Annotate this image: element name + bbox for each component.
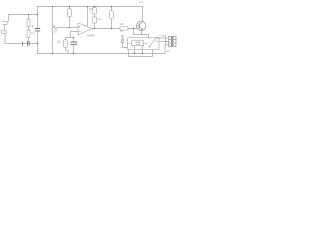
wire op-amp power pin from rail xyxy=(87,7,89,27)
resistor R3 xyxy=(93,8,97,14)
relay switch contact dot NC xyxy=(156,41,157,42)
diode D1 cathode dot xyxy=(122,35,124,37)
wire transistor collector from rail xyxy=(142,7,144,22)
junction dot ground-left at C1 branch xyxy=(37,43,39,45)
junction dot output at base node xyxy=(133,28,134,29)
wire resistor chain R1 top lead xyxy=(28,15,30,20)
relay switch arm xyxy=(150,39,156,47)
wire mic middle lead xyxy=(4,25,6,31)
wire inverting input down to filter node xyxy=(70,32,72,38)
wire bottom-left ground segment xyxy=(5,43,38,45)
wire mic bottom lead xyxy=(4,34,6,44)
wire capacitor C4 top lead xyxy=(73,38,75,43)
transistor Q1 base bar xyxy=(138,23,140,28)
capacitor C5 electrolytic can xyxy=(109,11,113,19)
transistor Q1 emitter stroke with arrow xyxy=(139,27,142,30)
wire ground rail up to terminal 3 xyxy=(165,45,169,54)
wire node at base resistor down xyxy=(133,29,135,35)
relay coil inner ellipse xyxy=(136,42,140,44)
terminal block dividers xyxy=(169,40,177,43)
junction dot rail at R3 xyxy=(94,6,95,7)
junction dot ground rail at coil pin 2 xyxy=(142,53,143,54)
wire mic top lead xyxy=(8,15,10,22)
wire emitter node horizontal xyxy=(134,34,149,36)
svg-text:R5: R5 xyxy=(120,29,124,33)
wire terminal link vertical xyxy=(165,36,167,45)
relay switch contact dot NO xyxy=(155,38,156,39)
relay coil lead left xyxy=(128,42,132,44)
capacitor C2 electrolytic can xyxy=(67,9,71,17)
op-amp plus input mark xyxy=(79,26,81,28)
resistor R5 base resistor xyxy=(120,27,128,30)
terminal block J1 outline xyxy=(169,37,177,47)
wire between R1 and R2 xyxy=(28,27,30,31)
wire divider chain top lead from rail xyxy=(94,7,96,8)
junction dot rail at C5 xyxy=(111,6,112,7)
wire relay bottom loop xyxy=(129,50,153,57)
op-amp minus input mark xyxy=(79,30,81,32)
wire wiper node to op-amp non-inverting input xyxy=(56,27,78,29)
wire upper stub to terminal link xyxy=(161,35,166,37)
wire diode D1 top lead xyxy=(122,37,124,39)
wire transistor emitter lead xyxy=(141,31,143,35)
terminal screw circles xyxy=(171,37,173,39)
junction dot ground rail at C4 xyxy=(73,53,74,54)
wire below R4 to output node xyxy=(94,23,96,29)
wire relay coil pin left to ground rail xyxy=(134,46,136,54)
relay switch pivot xyxy=(149,46,150,47)
junction dot ground rail at pot xyxy=(52,53,53,54)
transistor Q1 base lead xyxy=(137,25,140,27)
microphone MIC1 body top xyxy=(2,21,8,24)
wire switch NO contact to terminal 1 xyxy=(156,37,169,39)
junction dot input wire at R1 xyxy=(28,14,30,16)
relay RL1 outer box xyxy=(128,38,160,50)
capacitor C3 electrolytic can xyxy=(63,40,67,48)
wire below R2 to ground wire xyxy=(28,38,30,44)
capacitor C1 polarity plus xyxy=(31,25,33,27)
svg-text:10k: 10k xyxy=(120,22,125,26)
wire between R3 and R4 xyxy=(94,14,96,17)
wire switch NC contact to terminal 2 xyxy=(159,40,169,42)
svg-text:out: out xyxy=(166,49,170,53)
junction dot non-inv input at C2 lead xyxy=(69,27,70,28)
junction dot output at C5 xyxy=(111,28,112,29)
resistor R2 xyxy=(27,30,30,38)
svg-text:12V: 12V xyxy=(139,1,144,4)
junction dot rail at C2 xyxy=(69,6,70,7)
wire left rail drop to coupling cap xyxy=(37,7,39,29)
junction dot input wire at left drop xyxy=(36,14,37,15)
wire mic input horizontal xyxy=(9,14,38,16)
op-amp U1 triangle xyxy=(78,23,92,35)
wire pot wiper to op-amp non-inverting input xyxy=(53,26,57,30)
svg-text:10u: 10u xyxy=(57,40,62,44)
wire op-amp output xyxy=(92,28,120,30)
transistor Q1 collector stroke xyxy=(139,22,142,25)
capacitor C1 plates xyxy=(35,29,41,31)
junction dot filter node at C4 xyxy=(73,37,74,38)
wire below cap C1 down to ground rail xyxy=(37,31,39,54)
wire capacitor C2 bottom lead to input wire xyxy=(69,17,71,28)
junction dot terminal wire xyxy=(165,41,166,42)
wire relay coil pin right to ground rail xyxy=(142,46,144,54)
wire capacitor C5 bottom lead to output node xyxy=(111,19,113,29)
junction dot ground rail at coil pin xyxy=(134,53,135,54)
svg-text:4k7: 4k7 xyxy=(31,32,36,35)
wire potentiometer VR1 track vertical xyxy=(52,7,54,54)
wire capacitor C4 bottom lead xyxy=(73,44,75,53)
capacitor C4 plates xyxy=(71,42,78,44)
junction dot rail at opamp power xyxy=(87,6,88,7)
resistor R4 xyxy=(93,17,97,23)
relay coil box xyxy=(132,41,144,46)
transistor Q1 envelope circle xyxy=(137,21,146,30)
wire op-amp inverting input xyxy=(71,31,79,33)
series capacitor C6 plates on ground wire xyxy=(22,41,29,47)
junction dot output at R4 xyxy=(94,28,95,29)
wire top supply rail xyxy=(38,6,143,8)
wire capacitor C3 bottom lead to ground xyxy=(66,48,69,54)
svg-text:-: - xyxy=(62,10,63,14)
microphone MIC1 body bottom xyxy=(1,31,6,33)
svg-text:LM358: LM358 xyxy=(86,33,95,37)
wire ground rail bottom xyxy=(37,53,165,55)
wire filter node horizontal xyxy=(66,37,74,39)
wire capacitor C2 top lead to rail xyxy=(69,7,71,9)
svg-text:-: - xyxy=(116,13,117,17)
junction dot rail at pot xyxy=(52,6,54,8)
wire emitter into relay switch common xyxy=(148,35,150,39)
wire diode D1 bottom lead to relay box xyxy=(123,42,128,47)
relay coil lead right xyxy=(144,42,148,44)
resistor R1 xyxy=(27,19,30,27)
diode D1 flyback xyxy=(121,39,124,42)
wire output to transistor base xyxy=(128,28,137,30)
wire capacitor C3 top lead xyxy=(65,38,67,40)
wire capacitor C5 top lead to rail xyxy=(111,7,113,11)
